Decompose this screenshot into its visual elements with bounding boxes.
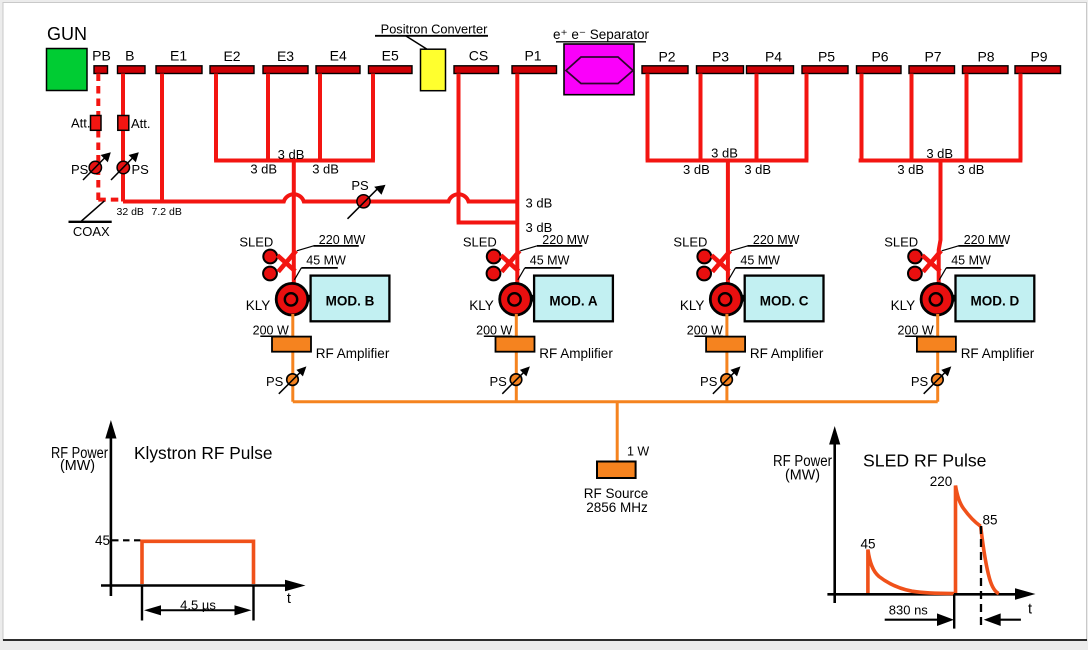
SLED hybrid X stroke 2 (station C): [712, 251, 730, 272]
modulator MOD. A box: [534, 276, 613, 322]
svg-text:E5: E5: [382, 48, 399, 64]
svg-text:MOD. D: MOD. D: [971, 294, 1020, 309]
PS arrow (station D): [924, 371, 947, 394]
klystron KLY circle (station B): [276, 283, 308, 315]
wire CS feed: [457, 74, 461, 223]
45 MW underline (station C): [735, 267, 772, 269]
wire station C riser: [726, 161, 730, 284]
220 MW pointer (station D): [942, 246, 959, 251]
svg-text:t: t: [287, 591, 291, 607]
wire station D riser: [939, 161, 941, 284]
SLED hybrid X stroke 2 (station D): [923, 251, 941, 272]
svg-text:P7: P7: [924, 49, 941, 65]
accelerator section P6: [857, 66, 902, 74]
accelerator section PB: [94, 66, 108, 74]
tick at pulse end: [953, 594, 955, 628]
PS arrow (station B): [279, 371, 302, 394]
svg-text:200 W: 200 W: [476, 324, 512, 338]
wire B feed: [121, 74, 125, 202]
svg-text:3 dB: 3 dB: [250, 161, 277, 176]
svg-text:P9: P9: [1030, 49, 1047, 65]
modulator MOD. B box: [311, 276, 390, 322]
200 W underline (station D): [905, 335, 934, 337]
accelerator section P2: [642, 66, 688, 74]
220 MW underline (station C): [747, 245, 793, 247]
wire P5 feed: [805, 74, 809, 161]
accelerator section P8: [963, 66, 1009, 74]
klystron inner ring (station C): [719, 293, 731, 305]
svg-text:PS: PS: [700, 374, 718, 389]
svg-text:RF Amplifier: RF Amplifier: [750, 346, 824, 361]
wire klystron drive (orange, station A): [515, 314, 518, 402]
klystron KLY circle (station C): [710, 283, 742, 315]
wire E5 feed: [371, 74, 375, 161]
klystron KLY circle (station A): [500, 283, 532, 315]
arrow PS (main line): [348, 189, 378, 219]
svg-text:Klystron RF Pulse: Klystron RF Pulse: [134, 443, 273, 463]
wire P3 feed: [699, 74, 703, 161]
svg-text:200 W: 200 W: [687, 324, 723, 338]
SLED cavity circle 2 (station C): [697, 267, 711, 281]
accelerator section P7: [909, 66, 955, 74]
SLED cavity circle 1 (station A): [487, 250, 501, 264]
200 W underline (station C): [694, 335, 723, 337]
svg-text:CS: CS: [469, 48, 488, 64]
wire klystron drive (orange, station B): [291, 314, 294, 402]
svg-text:Positron Converter: Positron Converter: [381, 22, 488, 37]
svg-text:KLY: KLY: [680, 298, 705, 313]
e+ e- separator (magenta box): [564, 44, 634, 95]
rf amplifier box (station D): [917, 337, 956, 352]
PS arrow (station A): [502, 371, 525, 394]
svg-text:E4: E4: [330, 48, 347, 64]
arrow PS (PB line): [83, 157, 106, 181]
positron converter (yellow box): [421, 49, 446, 90]
wire P2 feed: [646, 74, 650, 161]
SLED graph X axis: [827, 593, 1017, 596]
svg-text:3 dB: 3 dB: [711, 146, 738, 161]
SLED cavity circle 1 (station C): [697, 250, 711, 264]
arrow PS (B line): [111, 157, 134, 181]
svg-text:3 dB: 3 dB: [897, 162, 924, 177]
PS arrow (station C): [713, 371, 736, 394]
wire station B riser (bus to klystron): [292, 161, 296, 284]
tick pulse end: [252, 586, 254, 621]
connector klystron-modulator (station D): [952, 295, 957, 302]
connector klystron-modulator (station A): [530, 295, 535, 302]
45 MW underline (station A): [525, 267, 562, 269]
SLED cavity circle 1 (station B): [263, 250, 277, 264]
45 MW pointer (station B): [294, 268, 301, 280]
wire CS to P1 link: [457, 221, 518, 225]
connector klystron-modulator (station C): [741, 295, 746, 302]
phase shifter PS (station C): [721, 374, 733, 386]
220 MW underline (station B): [313, 245, 359, 247]
svg-text:220 MW: 220 MW: [542, 233, 589, 247]
svg-text:KLY: KLY: [469, 298, 494, 313]
svg-text:45 MW: 45 MW: [951, 254, 991, 268]
svg-text:SLED: SLED: [673, 235, 707, 250]
200 W underline (station A): [484, 335, 513, 337]
rf amplifier box (station C): [706, 337, 745, 352]
svg-text:(MW): (MW): [60, 458, 95, 474]
svg-text:3 dB: 3 dB: [312, 161, 339, 176]
svg-text:e⁺ e⁻ Separator: e⁺ e⁻ Separator: [553, 27, 650, 42]
svg-text:PS: PS: [132, 162, 150, 177]
svg-text:PS: PS: [911, 374, 929, 389]
svg-text:220 MW: 220 MW: [319, 233, 366, 247]
klystron inner ring (station D): [930, 293, 942, 305]
svg-text:P6: P6: [871, 49, 888, 65]
SLED cavity circle 2 (station B): [263, 267, 277, 281]
wire P8 feed: [965, 74, 969, 161]
svg-text:220: 220: [930, 474, 953, 489]
COAX overline: [69, 221, 112, 223]
svg-text:45: 45: [95, 533, 110, 548]
gun (green box): [47, 49, 88, 91]
right measure arrow: [998, 619, 1021, 621]
wire E2-E5 hybrid bus: [214, 159, 375, 163]
accelerator section P3: [697, 66, 744, 74]
svg-text:E3: E3: [277, 48, 294, 64]
220 MW underline (station A): [537, 245, 583, 247]
phase shifter PS (station D): [932, 374, 944, 386]
wire E1 feed: [160, 74, 164, 202]
svg-text:KLY: KLY: [246, 298, 271, 313]
200 W underline (station B): [260, 335, 289, 337]
svg-text:2856 MHz: 2856 MHz: [586, 500, 648, 515]
SLED cavity circle 1 (station D): [908, 250, 922, 264]
wire P7 feed: [910, 74, 914, 161]
svg-text:Att.: Att.: [131, 116, 151, 131]
svg-text:PS: PS: [489, 374, 507, 389]
Klystron graph X axis: [101, 584, 287, 587]
svg-text:PS: PS: [266, 374, 284, 389]
svg-text:45 MW: 45 MW: [740, 254, 780, 268]
svg-text:3 dB: 3 dB: [744, 162, 771, 177]
accelerator section CS: [454, 66, 499, 74]
wire E4 feed: [318, 74, 322, 161]
svg-text:MOD. A: MOD. A: [549, 294, 597, 309]
phase shifter PS (PB line): [89, 161, 101, 173]
accelerator section E3: [263, 66, 308, 74]
svg-text:7.2 dB: 7.2 dB: [152, 206, 182, 218]
klystron inner ring (station B): [285, 293, 297, 305]
svg-text:t: t: [1028, 602, 1032, 618]
attenuator Att. (PB line): [91, 116, 102, 131]
830 ns measure arrow: [885, 619, 940, 621]
wire klystron drive (orange, station C): [725, 314, 728, 402]
220 MW underline (station D): [958, 245, 1004, 247]
svg-text:3 dB: 3 dB: [926, 146, 953, 161]
svg-text:45: 45: [860, 536, 875, 551]
svg-text:P4: P4: [765, 49, 782, 65]
45 MW pointer (station D): [939, 268, 946, 280]
svg-text:45 MW: 45 MW: [306, 254, 346, 268]
accelerator section P9: [1015, 66, 1061, 74]
svg-text:P3: P3: [712, 49, 729, 65]
wire E2 feed: [214, 74, 218, 161]
svg-text:Att.: Att.: [71, 116, 91, 131]
accelerator section E5: [369, 66, 413, 74]
SLED hybrid X stroke 2 (station B): [278, 251, 296, 272]
wire low-level RF bus (orange): [293, 400, 938, 403]
dashed marker at 85: [980, 526, 982, 628]
separator label underline: [556, 41, 646, 43]
accelerator section E2: [210, 66, 254, 74]
svg-text:P8: P8: [977, 49, 994, 65]
SLED cavity circle 2 (station D): [908, 267, 922, 281]
svg-text:SLED: SLED: [884, 235, 918, 250]
wire P1 / station A riser: [515, 74, 519, 284]
svg-text:SLED: SLED: [463, 235, 497, 250]
SLED hybrid X stroke 1 (station B): [277, 255, 295, 271]
svg-text:P5: P5: [818, 49, 835, 65]
220 MW pointer (station C): [731, 246, 748, 251]
COAX pointer line: [82, 201, 105, 221]
svg-text:3 dB: 3 dB: [683, 162, 710, 177]
pointer line to converter: [406, 36, 437, 56]
klystron inner ring (station A): [508, 293, 520, 305]
dashed level line 45: [112, 539, 141, 541]
accelerator section P5: [802, 66, 848, 74]
SLED hybrid X stroke 1 (station D): [922, 255, 940, 271]
svg-text:RF Amplifier: RF Amplifier: [539, 346, 613, 361]
wire PB feed (dashed coax): [98, 74, 123, 202]
svg-text:32 dB: 32 dB: [117, 206, 144, 218]
svg-text:45 MW: 45 MW: [530, 254, 570, 268]
45 MW underline (station D): [946, 267, 983, 269]
klystron pulse waveform: [142, 541, 254, 584]
accelerator section E1: [156, 66, 202, 74]
wire P6 feed: [860, 74, 864, 161]
SLED hybrid X stroke 2 (station A): [502, 251, 520, 272]
wire main drive line with hops: [123, 194, 517, 201]
phase shifter PS (main line): [357, 195, 370, 208]
SLED hybrid X stroke 1 (station C): [712, 255, 730, 271]
svg-text:COAX: COAX: [73, 224, 110, 239]
SLED waveform segment 1: [868, 550, 954, 594]
svg-text:B: B: [125, 48, 134, 64]
rf amplifier box (station B): [272, 337, 311, 352]
svg-text:220 MW: 220 MW: [753, 233, 800, 247]
tick pulse start: [141, 586, 143, 621]
svg-text:(MW): (MW): [785, 468, 820, 484]
accelerator section P1: [512, 66, 557, 74]
45 MW pointer (station C): [729, 268, 736, 280]
klystron KLY circle (station D): [921, 283, 953, 315]
accelerator section B: [118, 66, 146, 74]
wire E3 feed: [266, 74, 270, 161]
svg-text:PB: PB: [92, 48, 111, 64]
modulator MOD. D box: [956, 276, 1035, 322]
svg-text:3 dB: 3 dB: [958, 162, 985, 177]
45 MW pointer (station A): [518, 268, 525, 280]
svg-text:RF Amplifier: RF Amplifier: [316, 346, 390, 361]
svg-text:1 W: 1 W: [627, 445, 649, 459]
svg-text:PS: PS: [71, 162, 89, 177]
wire P6-P9 hybrid bus: [859, 159, 1023, 163]
svg-text:200 W: 200 W: [898, 324, 934, 338]
accelerator section E4: [316, 66, 360, 74]
SLED hybrid X stroke 1 (station A): [501, 255, 519, 271]
Klystron graph Y axis: [110, 434, 113, 596]
svg-text:3 dB: 3 dB: [278, 147, 305, 162]
rf amplifier box (station A): [496, 337, 535, 352]
svg-text:P1: P1: [524, 48, 541, 64]
svg-text:MOD. B: MOD. B: [326, 294, 375, 309]
svg-text:85: 85: [982, 513, 997, 528]
phase shifter PS (B line): [117, 161, 129, 173]
45 MW underline (station B): [301, 267, 338, 269]
svg-text:220 MW: 220 MW: [964, 233, 1011, 247]
svg-text:PS: PS: [351, 178, 369, 193]
svg-text:200 W: 200 W: [253, 324, 289, 338]
wire P2-P5 hybrid bus: [646, 159, 809, 163]
svg-text:3 dB: 3 dB: [526, 196, 553, 211]
accelerator section P4: [747, 66, 794, 74]
separator hexagon: [566, 57, 633, 84]
svg-text:GUN: GUN: [47, 24, 87, 44]
svg-text:RF Source: RF Source: [584, 486, 649, 501]
RF source box: [597, 462, 636, 479]
svg-text:830 ns: 830 ns: [889, 603, 929, 618]
220 MW pointer (station B): [297, 246, 314, 251]
wire klystron drive (orange, station D): [936, 314, 939, 402]
Positron Converter underline: [375, 35, 488, 37]
svg-text:RF Amplifier: RF Amplifier: [961, 346, 1035, 361]
svg-text:KLY: KLY: [891, 298, 916, 313]
modulator MOD. C box: [745, 276, 824, 322]
4.5 us measure arrow: [150, 609, 247, 611]
attenuator Att. (B line): [118, 116, 129, 131]
220 MW pointer (station A): [520, 246, 537, 251]
SLED graph Y axis: [833, 440, 836, 603]
SLED waveform segment 2: [956, 486, 981, 594]
wire P9 feed: [1019, 74, 1023, 161]
svg-text:P2: P2: [658, 49, 675, 65]
svg-text:SLED RF Pulse: SLED RF Pulse: [863, 451, 987, 471]
connector klystron-modulator (station B): [307, 295, 312, 302]
svg-text:MOD. C: MOD. C: [760, 294, 809, 309]
SLED waveform tail: [981, 526, 999, 593]
svg-text:SLED: SLED: [239, 235, 273, 250]
svg-text:E2: E2: [223, 48, 240, 64]
svg-text:E1: E1: [170, 48, 187, 64]
SLED cavity circle 2 (station A): [487, 267, 501, 281]
phase shifter PS (station A): [510, 374, 522, 386]
phase shifter PS (station B): [287, 374, 299, 386]
wire RF source drop: [616, 402, 619, 462]
wire P4 feed: [755, 74, 759, 161]
svg-text:4.5 µs: 4.5 µs: [180, 598, 216, 613]
